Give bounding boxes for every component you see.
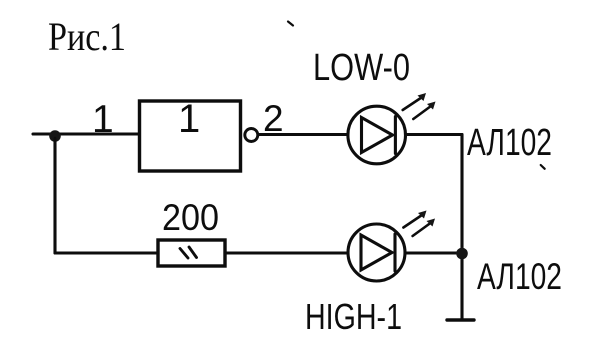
LED D1 arrow 1	[403, 98, 422, 111]
LED D1 triangle	[362, 118, 393, 153]
wire resistor to LED2	[225, 251, 348, 254]
speckle right	[541, 165, 545, 169]
LED D2 arrow 1	[403, 215, 422, 228]
wire left stub to gate input	[33, 132, 139, 135]
LED D2 arrow 2	[413, 223, 431, 236]
node A (junction dot left)	[49, 130, 61, 142]
svg-text:АЛ102: АЛ102	[477, 256, 562, 297]
wire right vertical	[460, 135, 463, 321]
svg-text:HIGH-1: HIGH-1	[305, 296, 402, 337]
svg-text:1: 1	[178, 97, 200, 141]
ground	[447, 318, 474, 321]
LED D1 arrow 2	[413, 106, 431, 119]
resistor power marks	[180, 249, 188, 259]
wire bottom to resistor	[55, 251, 158, 254]
inverter output bubble	[245, 129, 258, 142]
svg-text:2: 2	[263, 98, 284, 139]
svg-text:200: 200	[162, 197, 219, 238]
LED D1 cathode bar	[394, 117, 397, 154]
wire LED2 to node B	[405, 251, 462, 254]
LED D2 (АЛ102) circle	[348, 224, 405, 281]
op-amp U1 (logic inverter box)	[140, 101, 241, 171]
LED D1 (АЛ102) circle	[348, 106, 406, 164]
wire gate output to LED1	[259, 133, 349, 136]
LED D2 triangle	[361, 235, 392, 270]
wire left vertical	[53, 138, 56, 253]
svg-text:1: 1	[92, 98, 114, 141]
node B (junction dot right)	[456, 248, 468, 260]
svg-text:Рис.1: Рис.1	[48, 14, 126, 59]
wire LED1 to right corner	[406, 133, 463, 136]
speckle top	[288, 22, 293, 26]
svg-text:LOW-0: LOW-0	[313, 47, 410, 89]
LED D2 cathode bar	[393, 234, 396, 271]
svg-text:АЛ102: АЛ102	[467, 122, 552, 164]
resistor R1 body	[158, 240, 225, 266]
